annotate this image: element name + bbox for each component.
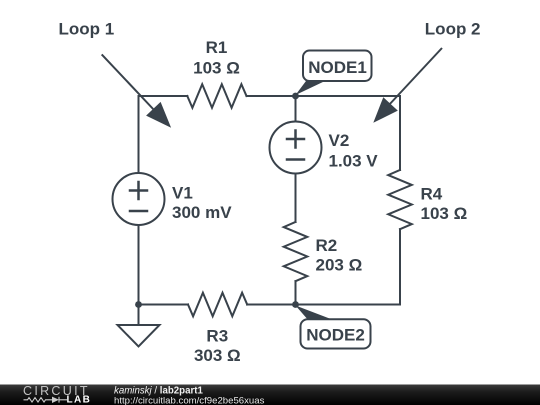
- ground wire: [138, 305, 140, 326]
- resistor R4: [388, 170, 412, 229]
- wire V2 to R2: [295, 174, 297, 223]
- svg-text:LAB: LAB: [67, 394, 92, 405]
- wire top-left to R1: [139, 95, 188, 97]
- wire R3 to node2: [247, 304, 295, 306]
- loop 2 arrow: [388, 48, 442, 106]
- svg-text:103 Ω: 103 Ω: [193, 59, 240, 78]
- svg-text:R2: R2: [316, 236, 338, 255]
- wire left rail lower: [138, 225, 140, 305]
- svg-text:NODE1: NODE1: [308, 58, 367, 77]
- wire R4 to bottom-right corner: [399, 229, 401, 304]
- svg-text:R4: R4: [421, 185, 443, 204]
- svg-text:V1: V1: [172, 184, 193, 203]
- wire R2 to node2: [295, 281, 297, 304]
- wire left rail upper: [138, 96, 140, 173]
- voltage source V2: [270, 122, 322, 174]
- voltage source V1: [113, 173, 165, 225]
- svg-text:203 Ω: 203 Ω: [316, 256, 363, 275]
- resistor R1: [187, 84, 246, 108]
- wire node1 to V2: [295, 96, 297, 122]
- resistor R3: [188, 293, 247, 317]
- node B junction dot ground: [135, 301, 142, 308]
- loop 1 arrow: [102, 54, 155, 111]
- svg-text:R1: R1: [206, 38, 228, 57]
- node NODE1 callout: [296, 81, 326, 95]
- logo resistor zigzag + diode: [24, 397, 68, 403]
- svg-text:R3: R3: [206, 327, 228, 346]
- wire top-right rail: [399, 96, 401, 170]
- svg-text:Loop 1: Loop 1: [59, 20, 115, 39]
- svg-text:http://circuitlab.com/cf9e2be5: http://circuitlab.com/cf9e2be56xuas: [114, 396, 265, 405]
- svg-text:103 Ω: 103 Ω: [421, 204, 468, 223]
- wire bottom-left to R3: [139, 304, 189, 306]
- node NODE2 callout: [296, 306, 332, 320]
- svg-text:V2: V2: [329, 131, 350, 150]
- svg-text:Loop 2: Loop 2: [425, 20, 481, 39]
- svg-text:300 mV: 300 mV: [172, 203, 232, 222]
- ground: [118, 325, 160, 347]
- svg-text:1.03 V: 1.03 V: [329, 152, 379, 171]
- node A junction dot NODE1: [292, 93, 299, 100]
- wire R1 to top-right corner: [247, 95, 401, 97]
- CircuitLab logo: [23, 384, 91, 405]
- wire bottom-right: [296, 304, 401, 306]
- node C junction dot NODE2: [292, 301, 299, 308]
- svg-text:303 Ω: 303 Ω: [194, 346, 241, 365]
- resistor R2: [284, 222, 308, 281]
- svg-text:NODE2: NODE2: [306, 326, 365, 345]
